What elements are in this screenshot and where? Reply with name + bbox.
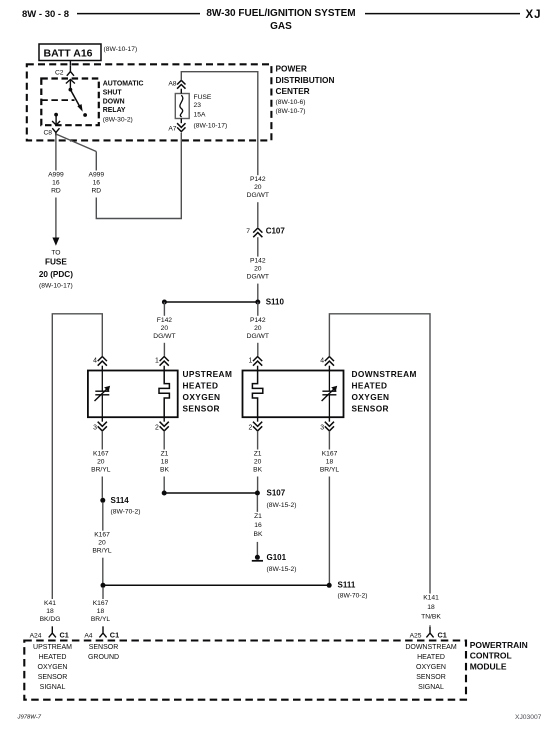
svg-text:DISTRIBUTION: DISTRIBUTION bbox=[276, 75, 335, 85]
svg-text:DG/WT: DG/WT bbox=[247, 333, 269, 340]
svg-text:SENSOR: SENSOR bbox=[352, 403, 389, 413]
svg-text:BR/YL: BR/YL bbox=[91, 467, 111, 474]
svg-text:S114: S114 bbox=[111, 496, 130, 505]
svg-text:A7: A7 bbox=[168, 126, 176, 133]
svg-text:16: 16 bbox=[254, 522, 262, 529]
svg-text:P142: P142 bbox=[250, 258, 266, 265]
svg-text:(8W-10-17): (8W-10-17) bbox=[104, 46, 138, 53]
svg-text:CONTROL: CONTROL bbox=[470, 650, 512, 660]
svg-text:OXYGEN: OXYGEN bbox=[352, 392, 390, 402]
svg-text:UPSTREAM: UPSTREAM bbox=[183, 369, 233, 379]
svg-text:18: 18 bbox=[97, 608, 105, 615]
svg-text:18: 18 bbox=[46, 608, 54, 615]
svg-text:GAS: GAS bbox=[270, 21, 292, 32]
svg-text:RELAY: RELAY bbox=[103, 107, 126, 114]
svg-text:BK/DG: BK/DG bbox=[40, 616, 61, 623]
svg-text:8W-30 FUEL/IGNITION SYSTEM: 8W-30 FUEL/IGNITION SYSTEM bbox=[206, 8, 355, 19]
svg-text:20: 20 bbox=[98, 540, 106, 547]
svg-text:XJ03007: XJ03007 bbox=[515, 714, 542, 721]
svg-text:1: 1 bbox=[248, 358, 252, 365]
svg-text:K167: K167 bbox=[93, 600, 109, 607]
svg-text:20: 20 bbox=[254, 459, 262, 466]
svg-text:C107: C107 bbox=[266, 226, 286, 235]
svg-text:SENSOR: SENSOR bbox=[183, 403, 220, 413]
svg-text:DG/WT: DG/WT bbox=[153, 333, 175, 340]
svg-text:18: 18 bbox=[326, 459, 334, 466]
svg-text:(8W-10-7): (8W-10-7) bbox=[276, 108, 306, 115]
svg-text:18: 18 bbox=[161, 459, 169, 466]
svg-text:3: 3 bbox=[320, 425, 324, 432]
svg-text:HEATED: HEATED bbox=[39, 654, 67, 661]
svg-text:S107: S107 bbox=[267, 489, 286, 498]
svg-text:OXYGEN: OXYGEN bbox=[183, 392, 221, 402]
svg-text:(8W-10-17): (8W-10-17) bbox=[194, 123, 228, 130]
svg-text:(8W-15-2): (8W-15-2) bbox=[267, 502, 297, 509]
svg-text:DG/WT: DG/WT bbox=[247, 274, 269, 281]
svg-text:SIGNAL: SIGNAL bbox=[40, 684, 66, 691]
svg-text:16: 16 bbox=[93, 180, 101, 187]
svg-text:SENSOR: SENSOR bbox=[38, 674, 68, 681]
svg-text:UPSTREAM: UPSTREAM bbox=[33, 644, 72, 651]
svg-text:RD: RD bbox=[91, 188, 101, 195]
svg-text:3: 3 bbox=[93, 425, 97, 432]
svg-text:GROUND: GROUND bbox=[88, 654, 119, 661]
svg-text:4: 4 bbox=[93, 358, 97, 365]
svg-text:BR/YL: BR/YL bbox=[91, 616, 111, 623]
svg-text:20 (PDC): 20 (PDC) bbox=[39, 270, 73, 279]
svg-text:FUSE: FUSE bbox=[194, 94, 212, 101]
svg-text:23: 23 bbox=[194, 102, 202, 109]
svg-text:20: 20 bbox=[254, 184, 262, 191]
svg-text:MODULE: MODULE bbox=[470, 662, 507, 672]
svg-text:A25: A25 bbox=[410, 632, 422, 639]
svg-text:(8W-15-2): (8W-15-2) bbox=[267, 566, 297, 573]
svg-text:2: 2 bbox=[155, 425, 159, 432]
svg-text:1: 1 bbox=[155, 358, 159, 365]
svg-text:K167: K167 bbox=[94, 532, 110, 539]
svg-text:A999: A999 bbox=[48, 172, 64, 179]
svg-text:7: 7 bbox=[246, 228, 250, 235]
svg-text:HEATED: HEATED bbox=[352, 381, 388, 391]
svg-text:C8: C8 bbox=[43, 130, 52, 137]
svg-text:RD: RD bbox=[51, 188, 61, 195]
svg-text:K167: K167 bbox=[93, 451, 109, 458]
svg-text:SHUT: SHUT bbox=[103, 89, 123, 96]
svg-text:BK: BK bbox=[254, 531, 263, 538]
svg-text:C1: C1 bbox=[110, 631, 119, 640]
svg-text:DG/WT: DG/WT bbox=[247, 192, 269, 199]
svg-text:DOWNSTREAM: DOWNSTREAM bbox=[352, 369, 417, 379]
svg-text:18: 18 bbox=[427, 604, 435, 611]
svg-text:20: 20 bbox=[254, 325, 262, 332]
svg-text:J978W-7: J978W-7 bbox=[17, 715, 42, 721]
svg-text:(8W-30-2): (8W-30-2) bbox=[103, 117, 133, 124]
svg-text:TO: TO bbox=[51, 250, 60, 257]
svg-text:A8: A8 bbox=[168, 81, 176, 88]
svg-text:HEATED: HEATED bbox=[417, 654, 445, 661]
svg-text:AUTOMATIC: AUTOMATIC bbox=[103, 81, 144, 88]
svg-text:XJ: XJ bbox=[526, 9, 542, 21]
svg-text:DOWNSTREAM: DOWNSTREAM bbox=[405, 644, 457, 651]
svg-text:(8W-70-2): (8W-70-2) bbox=[111, 509, 141, 516]
svg-text:20: 20 bbox=[161, 325, 169, 332]
svg-text:SENSOR: SENSOR bbox=[416, 674, 446, 681]
svg-text:(8W-70-2): (8W-70-2) bbox=[338, 593, 368, 600]
svg-text:C1: C1 bbox=[60, 631, 69, 640]
svg-text:G101: G101 bbox=[267, 553, 287, 562]
svg-text:SENSOR: SENSOR bbox=[89, 644, 119, 651]
svg-text:POWERTRAIN: POWERTRAIN bbox=[470, 640, 528, 650]
svg-text:F142: F142 bbox=[157, 317, 173, 324]
svg-text:SIGNAL: SIGNAL bbox=[418, 684, 444, 691]
svg-text:BR/YL: BR/YL bbox=[92, 548, 112, 555]
svg-text:Z1: Z1 bbox=[254, 451, 262, 458]
svg-text:K167: K167 bbox=[322, 451, 338, 458]
svg-text:20: 20 bbox=[254, 266, 262, 273]
svg-text:OXYGEN: OXYGEN bbox=[416, 664, 446, 671]
svg-text:OXYGEN: OXYGEN bbox=[38, 664, 68, 671]
svg-text:S110: S110 bbox=[266, 298, 285, 307]
svg-text:8W - 30 - 8: 8W - 30 - 8 bbox=[22, 9, 69, 20]
svg-text:K41: K41 bbox=[44, 600, 56, 607]
svg-text:HEATED: HEATED bbox=[183, 381, 219, 391]
svg-text:BK: BK bbox=[253, 467, 262, 474]
svg-text:P142: P142 bbox=[250, 317, 266, 324]
svg-text:BK: BK bbox=[160, 467, 169, 474]
svg-text:A999: A999 bbox=[88, 172, 104, 179]
svg-text:FUSE: FUSE bbox=[45, 258, 67, 267]
svg-text:(8W-10-6): (8W-10-6) bbox=[276, 99, 306, 106]
svg-text:A4: A4 bbox=[84, 632, 92, 639]
svg-text:C1: C1 bbox=[438, 631, 447, 640]
svg-text:Z1: Z1 bbox=[161, 451, 169, 458]
svg-text:(8W-10-17): (8W-10-17) bbox=[39, 283, 73, 290]
svg-text:2: 2 bbox=[248, 425, 252, 432]
svg-text:C2: C2 bbox=[55, 70, 64, 77]
svg-text:P142: P142 bbox=[250, 176, 266, 183]
svg-text:A24: A24 bbox=[30, 632, 42, 639]
svg-text:15A: 15A bbox=[194, 111, 206, 118]
svg-text:POWER: POWER bbox=[276, 63, 307, 73]
svg-text:Z1: Z1 bbox=[254, 513, 262, 520]
svg-text:CENTER: CENTER bbox=[276, 86, 310, 96]
svg-text:16: 16 bbox=[52, 180, 60, 187]
svg-text:20: 20 bbox=[97, 459, 105, 466]
svg-text:DOWN: DOWN bbox=[103, 98, 125, 105]
svg-text:4: 4 bbox=[320, 358, 324, 365]
svg-text:BR/YL: BR/YL bbox=[320, 467, 340, 474]
svg-text:TN/BK: TN/BK bbox=[421, 614, 441, 621]
svg-text:BATT A16: BATT A16 bbox=[44, 48, 93, 60]
svg-text:S111: S111 bbox=[338, 581, 356, 590]
svg-text:K141: K141 bbox=[423, 595, 439, 602]
